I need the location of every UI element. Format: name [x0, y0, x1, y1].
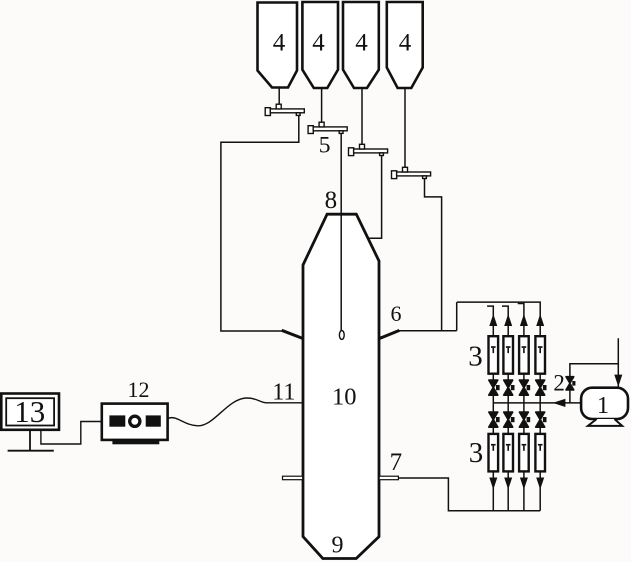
- svg-text:3: 3: [469, 437, 484, 469]
- svg-text:7: 7: [390, 449, 403, 476]
- svg-text:1: 1: [597, 392, 609, 419]
- svg-text:11: 11: [272, 379, 295, 405]
- svg-text:4: 4: [273, 30, 286, 57]
- svg-text:9: 9: [332, 533, 344, 559]
- svg-text:12: 12: [128, 377, 150, 402]
- svg-text:4: 4: [399, 30, 412, 57]
- svg-text:5: 5: [319, 133, 331, 159]
- svg-text:2: 2: [553, 371, 565, 396]
- svg-text:4: 4: [312, 30, 325, 57]
- svg-text:10: 10: [332, 383, 357, 410]
- svg-text:13: 13: [14, 394, 45, 429]
- svg-text:3: 3: [468, 341, 483, 373]
- svg-text:8: 8: [325, 187, 338, 214]
- svg-text:4: 4: [355, 30, 368, 57]
- svg-text:6: 6: [391, 301, 402, 326]
